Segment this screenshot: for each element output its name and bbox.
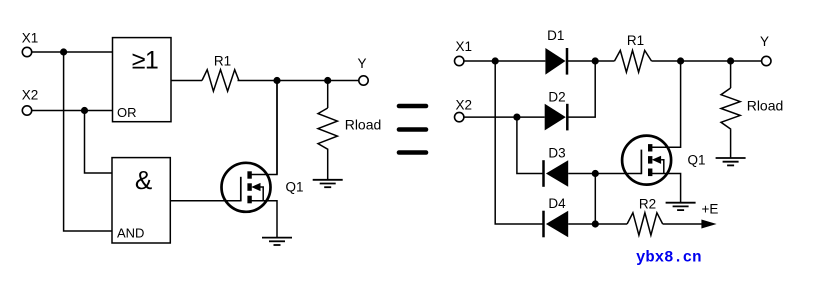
wire R2 to +E arrow bbox=[663, 223, 702, 225]
wire Rload (right) bottom lead bbox=[730, 129, 732, 158]
junction dot X1 branch bbox=[60, 48, 67, 55]
svg-text:ybx8.cn: ybx8.cn bbox=[636, 249, 702, 267]
diode D4 triangle bbox=[546, 211, 568, 238]
wire D2 cathode up to D1 node bbox=[567, 61, 595, 117]
OR gate U1 box bbox=[113, 38, 172, 122]
diode D2 triangle bbox=[545, 104, 566, 131]
svg-text:R1: R1 bbox=[627, 33, 644, 48]
transistor Q1 (left) MOSFET circle bbox=[222, 163, 271, 212]
diode D4 cathode bar bbox=[542, 211, 545, 238]
resistor Rload (right) bbox=[721, 88, 740, 129]
diode D3 triangle bbox=[546, 160, 568, 187]
wire D3 anode to gate node bbox=[568, 173, 595, 175]
wire X1 to D1 anode bbox=[464, 60, 546, 62]
junction dot drain rail (right) bbox=[677, 57, 684, 64]
resistor R1 (right) bbox=[615, 50, 652, 72]
AND gate U2 box bbox=[112, 158, 170, 243]
svg-text:≥1: ≥1 bbox=[132, 47, 159, 75]
svg-text:Q1: Q1 bbox=[285, 180, 303, 195]
ground below Q1 (right) bbox=[666, 203, 696, 210]
node X1 (right) terminal bbox=[455, 56, 464, 65]
wire D4 anode to R2 bbox=[568, 223, 627, 225]
equivalence sign (three bars) bbox=[399, 106, 426, 153]
+E supply arrow head bbox=[701, 220, 716, 229]
wire X1 to OR input bbox=[32, 51, 113, 53]
diode D1 cathode bar bbox=[566, 48, 569, 75]
wire X1 branch down to AND lower input bbox=[64, 52, 112, 231]
wire X2 branch down to AND upper input bbox=[85, 111, 113, 174]
node X2 (left) terminal bbox=[22, 106, 31, 115]
transistor Q1 (left) drain lead bbox=[250, 81, 277, 175]
ground below Rload (left) bbox=[313, 180, 343, 187]
svg-text:R1: R1 bbox=[214, 54, 231, 69]
transistor Q1 (right) body arrow bbox=[652, 156, 661, 164]
wire OR output to R1 bbox=[171, 80, 202, 82]
transistor Q1 (right) channel bars bbox=[648, 144, 652, 176]
ground below Q1 (left) bbox=[262, 238, 292, 245]
transistor Q1 (left) body arrow bbox=[251, 183, 260, 191]
transistor Q1 (right) drain lead bbox=[650, 61, 680, 147]
diode D2 cathode bar bbox=[566, 104, 569, 131]
wire Rload (right) top lead bbox=[730, 61, 732, 88]
svg-text:D1: D1 bbox=[547, 28, 564, 43]
resistor R2 bbox=[627, 213, 663, 235]
node X1 (left) terminal bbox=[22, 47, 31, 56]
transistor Q1 (left) channel bars bbox=[247, 171, 251, 203]
ground below Rload (right) bbox=[716, 158, 746, 165]
svg-text:+E: +E bbox=[702, 202, 719, 217]
svg-text:AND: AND bbox=[117, 226, 144, 241]
svg-text:X1: X1 bbox=[22, 31, 39, 46]
junction dot D4/R2 node bbox=[592, 220, 599, 227]
node X2 (right) terminal bbox=[455, 112, 464, 121]
resistor R1 (left) bbox=[202, 70, 239, 92]
svg-text:X2: X2 bbox=[455, 98, 472, 113]
svg-text:Y: Y bbox=[760, 34, 769, 49]
junction dot gate node bbox=[592, 170, 599, 177]
transistor Q1 (right) gate plate bbox=[640, 150, 642, 175]
transistor Q1 (right) body-source link bbox=[661, 160, 664, 174]
junction dot X2 branch (right) bbox=[513, 114, 520, 121]
svg-text:D3: D3 bbox=[548, 146, 565, 161]
diode D3 cathode bar bbox=[542, 160, 545, 187]
junction dot X2 branch bbox=[81, 107, 88, 114]
diode D1 triangle bbox=[545, 48, 565, 75]
svg-text:Q1: Q1 bbox=[687, 153, 705, 168]
svg-text:OR: OR bbox=[117, 105, 137, 120]
wire gate node to Q1 gate (right) bbox=[595, 173, 641, 175]
svg-text:D4: D4 bbox=[548, 196, 566, 211]
wire Rload top lead bbox=[327, 81, 329, 109]
wire drain vertical bbox=[276, 81, 278, 175]
svg-text:X2: X2 bbox=[22, 88, 39, 103]
wire X1 branch down to D4 bbox=[495, 61, 543, 224]
wire X2 to OR input bbox=[32, 110, 113, 112]
junction dot Rload rail bbox=[324, 77, 331, 84]
wire R1 to Y (right) bbox=[652, 60, 762, 62]
resistor Rload (left) bbox=[318, 108, 337, 153]
svg-text:Rload: Rload bbox=[345, 117, 382, 133]
wire Rload bottom lead bbox=[327, 153, 329, 180]
transistor Q1 (right) MOSFET circle bbox=[622, 136, 671, 185]
node Y (right) terminal bbox=[762, 56, 771, 65]
wire R1 to Y rail bbox=[238, 80, 359, 82]
svg-text:D2: D2 bbox=[548, 90, 565, 105]
svg-text:&: & bbox=[135, 165, 152, 195]
svg-text:R2: R2 bbox=[639, 197, 656, 212]
transistor Q1 (left) gate plate bbox=[240, 177, 242, 202]
wire AND output to Q1 gate bbox=[170, 200, 241, 202]
junction dot X1 branch (right) bbox=[492, 57, 499, 64]
transistor Q1 (left) body-source link bbox=[261, 187, 264, 201]
transistor Q1 (left) source lead bbox=[250, 201, 277, 238]
wire D1 cathode to node bbox=[567, 60, 615, 62]
svg-text:X1: X1 bbox=[455, 39, 472, 54]
junction dot D1/D2 node bbox=[592, 57, 599, 64]
wire gate node down to D4 rail bbox=[594, 174, 596, 225]
svg-text:Y: Y bbox=[357, 56, 366, 71]
svg-text:Rload: Rload bbox=[747, 98, 784, 114]
node Y (left) terminal bbox=[359, 76, 368, 85]
transistor Q1 (right) source lead bbox=[650, 174, 680, 203]
junction dot Rload rail (right) bbox=[727, 57, 734, 64]
wire X2 to D2 anode bbox=[464, 116, 545, 118]
junction dot drain rail bbox=[273, 77, 280, 84]
wire X2 branch down to D3 bbox=[517, 117, 544, 173]
